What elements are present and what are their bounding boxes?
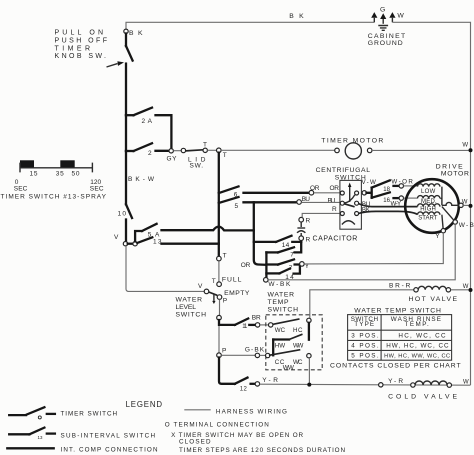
svg-text:2: 2 xyxy=(148,150,152,157)
svg-text:P: P xyxy=(222,348,226,355)
label CABINET GROUND xyxy=(368,33,406,47)
svg-text:BK: BK xyxy=(129,30,143,37)
svg-text:G-BK: G-BK xyxy=(245,346,265,353)
centrifugal switch actuator arrow xyxy=(348,183,351,203)
water temp switch row 2 HW-WW xyxy=(273,334,303,349)
node lid switch terminal right T xyxy=(203,142,207,153)
wire main BK-W vertical to switch 10 xyxy=(125,151,127,204)
timer switch 12 xyxy=(235,378,255,393)
svg-text:WATER TEMP SWITCH: WATER TEMP SWITCH xyxy=(354,307,441,314)
wire 5A contact line with hop over main vertical xyxy=(162,227,254,231)
wire 14 second contact riser to node Y xyxy=(294,267,300,274)
svg-text:EMPTY: EMPTY xyxy=(224,290,250,297)
svg-text:SWITCH: SWITCH xyxy=(268,307,299,314)
svg-text:W: W xyxy=(462,199,468,205)
timer switch 10 xyxy=(118,204,133,218)
wire R from centrifugal switch to capacitor xyxy=(302,213,340,217)
svg-text:W: W xyxy=(463,284,469,290)
svg-text:TIMER SWITCH #13-SPRAY: TIMER SWITCH #13-SPRAY xyxy=(1,193,107,200)
timer switch 18 xyxy=(367,180,391,197)
svg-text:10: 10 xyxy=(118,211,127,218)
node GY terminal xyxy=(167,149,178,163)
svg-text:2A: 2A xyxy=(142,118,153,125)
node P G-BK terminal xyxy=(217,348,227,358)
node R capacitor top terminal xyxy=(299,217,311,224)
node V-W terminal xyxy=(362,179,377,195)
node W-BK terminal xyxy=(264,278,292,288)
svg-text:O TERMINAL CONNECTION: O TERMINAL CONNECTION xyxy=(165,422,269,429)
svg-text:11: 11 xyxy=(242,324,248,330)
svg-text:SW.: SW. xyxy=(190,163,204,170)
timer switch 7 second xyxy=(266,259,294,272)
label WATER LEVEL SWITCH xyxy=(176,297,207,319)
wire W-OR to LOW winding xyxy=(404,185,418,187)
svg-text:HC, WC, CC: HC, WC, CC xyxy=(398,332,446,339)
svg-text:T: T xyxy=(223,252,227,259)
svg-text:W-OR: W-OR xyxy=(391,179,413,186)
svg-text:Y: Y xyxy=(435,233,440,240)
node centrifugal pin R left bottom xyxy=(340,212,344,216)
svg-text:WATER: WATER xyxy=(176,297,203,304)
svg-text:OR: OR xyxy=(330,185,340,192)
svg-text:COLD VALVE: COLD VALVE xyxy=(388,394,457,401)
wire link into temp switch xyxy=(260,354,266,356)
svg-text:TIMER MOTOR: TIMER MOTOR xyxy=(321,137,383,144)
wire row 2 bar down to row 3 pole xyxy=(272,340,274,356)
node G cabinet ground xyxy=(380,7,386,24)
svg-text:WW: WW xyxy=(293,342,303,349)
svg-text:HOT VALVE: HOT VALVE xyxy=(409,296,458,303)
winding START xyxy=(418,212,440,221)
svg-text:3 POS.: 3 POS. xyxy=(351,332,379,339)
svg-text:BK: BK xyxy=(289,13,304,20)
switch: lid sw. blade xyxy=(186,150,203,151)
wire BU centrifugal to HIGH winding xyxy=(359,201,418,208)
svg-text:15: 15 xyxy=(30,171,38,178)
node lid switch terminal left xyxy=(181,148,185,152)
node G-BK terminal at temp switch xyxy=(255,353,259,357)
svg-text:PULL ON: PULL ON xyxy=(55,30,104,37)
wire main line down to switch 12 xyxy=(219,358,235,384)
timer switch 6 xyxy=(219,186,239,198)
svg-text:BR: BR xyxy=(252,315,261,322)
node T FULL contact xyxy=(212,277,242,287)
label LID SW. xyxy=(188,157,206,170)
node centrifugal pin BU left middle xyxy=(340,201,344,205)
svg-text:SWITCH: SWITCH xyxy=(176,312,207,319)
legend sub-interval switch symbol xyxy=(9,428,155,441)
wire 7 contact to R riser xyxy=(295,242,302,252)
capacitor xyxy=(297,222,305,236)
svg-text:Y-R: Y-R xyxy=(262,377,278,384)
drive motor outline xyxy=(405,163,469,232)
svg-text:P: P xyxy=(223,297,227,304)
water temp switch table xyxy=(348,315,452,361)
svg-text:T: T xyxy=(223,152,227,159)
svg-text:CENTRIFUGAL: CENTRIFUGAL xyxy=(316,167,371,174)
timer switch 13 spray timing chart bar 2 xyxy=(60,160,74,168)
svg-text:12: 12 xyxy=(240,387,248,393)
centrifugal switch internal blades xyxy=(344,195,355,207)
node BK terminal of timer knob switch xyxy=(124,29,128,33)
svg-text:G: G xyxy=(380,7,385,14)
wire P down to switch 11 tap xyxy=(219,299,221,315)
wire BK centrifugal to START winding xyxy=(359,206,418,214)
water level switch blade xyxy=(209,292,218,295)
node centrifugal pin right top xyxy=(355,191,359,195)
wire W-B from drive motor to node W-BK xyxy=(268,224,455,280)
water temp switch row 3 blade CC-WC xyxy=(269,350,303,372)
wire GY to lid switch xyxy=(173,150,181,152)
wire hot valve to right edge xyxy=(451,284,469,290)
wire switch 10 to node V xyxy=(125,220,127,242)
wire HC contact bar down xyxy=(308,323,310,340)
legend timer switch symbol xyxy=(9,407,117,419)
label PULL ON PUSH OFF TIMER KNOB SW. xyxy=(55,30,108,61)
timing chart baseline xyxy=(20,163,92,173)
svg-text:Y-R: Y-R xyxy=(388,378,403,385)
node switch 12 output terminal xyxy=(255,377,278,386)
junction dot drive motor W at right edge xyxy=(469,204,473,208)
svg-text:35: 35 xyxy=(56,171,64,178)
svg-text:GROUND: GROUND xyxy=(368,40,403,47)
wire BR into water temp switch xyxy=(260,324,269,326)
svg-text:WC: WC xyxy=(293,359,303,366)
timer switch 13 xyxy=(137,237,162,245)
wire bar A from switch 5 node down to OR node xyxy=(254,202,267,264)
svg-text:CLOSED: CLOSED xyxy=(179,439,211,446)
svg-text:V: V xyxy=(114,234,119,241)
centrifugal switch box xyxy=(316,167,371,229)
svg-text:HW, HC, WC, CC: HW, HC, WC, CC xyxy=(386,342,449,349)
svg-text:5 POS.: 5 POS. xyxy=(351,352,379,359)
wire G-BK to water temp switch xyxy=(221,346,264,355)
svg-text:INT. COMP CONNECTION: INT. COMP CONNECTION xyxy=(61,446,158,453)
wire START winding to node Y xyxy=(435,215,445,241)
svg-text:TYPE: TYPE xyxy=(354,321,374,328)
timing chart labels xyxy=(1,171,107,201)
node centrifugal pin OR left top xyxy=(340,191,344,195)
timer switch 16 xyxy=(372,192,391,204)
water temp switch dashed box xyxy=(266,291,322,369)
node P EMPTY contact xyxy=(217,290,250,304)
svg-text:W: W xyxy=(463,379,469,385)
node T junction xyxy=(217,148,227,159)
wire lid switch to node T xyxy=(207,149,216,151)
svg-text:W: W xyxy=(397,13,404,20)
node R capacitor bottom terminal xyxy=(299,236,311,243)
wire W from cabinet ground to right edge and down right side xyxy=(392,22,470,385)
timer switch 13 spray timing chart bar 1 xyxy=(20,160,34,168)
centrifugal switch governor arc xyxy=(342,221,355,225)
ground symbol cabinet ground xyxy=(378,26,388,31)
wire switch 5 contact to node BU xyxy=(244,201,297,203)
wire bar B pivot bus of motor switches xyxy=(265,252,267,277)
svg-text:SEC: SEC xyxy=(14,185,28,192)
svg-text:LEGEND: LEGEND xyxy=(126,400,163,409)
wire main line down to G-BK node xyxy=(218,326,220,353)
timer motor xyxy=(221,137,383,159)
wire main BK vertical to switch 2A xyxy=(125,64,127,116)
wire BU to centrifugal switch xyxy=(301,201,340,203)
pointer arrow to knob switch xyxy=(107,61,125,67)
sub-interval switch 5A xyxy=(135,224,160,242)
svg-text:TIMER: TIMER xyxy=(55,45,91,52)
wire 14 contact to R riser xyxy=(292,240,301,242)
wire BK top horizontal from timer knob terminal to cabinet ground xyxy=(126,22,374,29)
legend harness wiring symbol xyxy=(184,409,287,416)
node row 3 pole xyxy=(266,353,270,357)
wire T node to water level switch FULL xyxy=(218,261,220,282)
wire main T vertical line down through switches 6 and 5 xyxy=(218,153,220,256)
svg-text:HARNESS WIRING: HARNESS WIRING xyxy=(216,409,287,416)
svg-text:W: W xyxy=(462,143,468,149)
svg-text:CABINET: CABINET xyxy=(368,33,406,40)
svg-text:LEVEL: LEVEL xyxy=(176,304,197,311)
svg-text:W-BK: W-BK xyxy=(268,281,291,288)
timer switch 11 xyxy=(219,319,255,331)
node Y-R terminal before cold valve xyxy=(379,378,404,387)
svg-text:R: R xyxy=(306,217,311,224)
svg-text:WATER: WATER xyxy=(268,291,295,298)
wire BR-R from water temp switch HC to hot valve xyxy=(310,283,414,319)
node HC contact xyxy=(307,318,311,322)
svg-text:MOTOR: MOTOR xyxy=(441,170,469,177)
timer switch 14 second xyxy=(266,269,294,281)
node T terminal below 13 junction xyxy=(217,252,227,261)
svg-text:HC: HC xyxy=(293,327,303,334)
svg-text:V: V xyxy=(198,283,203,290)
water temp switch row 1 pole xyxy=(269,323,273,327)
junction dot hot valve W at right edge xyxy=(469,288,473,292)
node BU terminal to centrifugal switch xyxy=(297,196,336,205)
wire switch 6 contact to node OR xyxy=(244,192,310,194)
svg-text:W-B: W-B xyxy=(459,222,474,229)
winding LOW xyxy=(418,184,440,195)
svg-text:TIMER STEPS ARE 120 SECONDS DU: TIMER STEPS ARE 120 SECONDS DURATION xyxy=(179,447,345,454)
svg-text:TEMP.: TEMP. xyxy=(405,321,430,328)
wire motor common bus to node W xyxy=(440,187,468,208)
svg-text:TEMP: TEMP xyxy=(268,299,289,306)
winding HIGH xyxy=(418,204,440,213)
cabinet ground arrow W side xyxy=(389,12,404,22)
svg-text:LOW: LOW xyxy=(421,189,436,195)
wire timer motor to right edge xyxy=(372,143,469,151)
svg-text:CAPACITOR: CAPACITOR xyxy=(313,235,358,242)
junction dot timer motor W at right edge xyxy=(469,148,473,152)
legend timer switch may be open or closed xyxy=(171,432,303,445)
svg-text:PUSH OFF: PUSH OFF xyxy=(55,37,108,44)
cabinet ground arrow BK side xyxy=(371,12,377,22)
svg-text:BK: BK xyxy=(362,206,371,213)
timer switch 7 first xyxy=(266,247,294,258)
svg-text:SUB-INTERVAL SWITCH: SUB-INTERVAL SWITCH xyxy=(61,433,156,440)
wire row 3 contact down to cold valve line xyxy=(308,358,310,385)
svg-text:FULL: FULL xyxy=(222,277,242,284)
wire Y-R cold valve line xyxy=(260,384,471,385)
hot valve solenoid xyxy=(409,286,458,303)
wire W-Y to MED winding xyxy=(404,197,418,199)
node V terminal pair xyxy=(114,234,137,246)
timer switch 14 first xyxy=(254,236,292,249)
wire Y from drive motor to switch stack xyxy=(304,233,443,264)
svg-text:SEC: SEC xyxy=(90,185,104,192)
svg-text:50: 50 xyxy=(72,171,80,178)
svg-text:HW, HC, WW, WC, CC: HW, HC, WW, WC, CC xyxy=(384,353,450,359)
node W-Y terminal xyxy=(391,196,404,207)
winding MED xyxy=(418,196,440,205)
svg-text:KNOB SW.: KNOB SW. xyxy=(55,53,107,60)
wire OR to centrifugal switch xyxy=(314,192,341,194)
svg-text:OR: OR xyxy=(241,262,251,269)
svg-text:V-W: V-W xyxy=(362,179,377,186)
svg-text:START: START xyxy=(418,215,438,221)
svg-text:OR: OR xyxy=(310,185,320,192)
wire 7 second contact to node Y xyxy=(295,263,300,265)
switch: pull on push off timer knob sw. xyxy=(126,34,133,61)
svg-text:GY: GY xyxy=(167,156,178,163)
node V water level switch pole xyxy=(198,283,209,294)
wire HIGH winding to node W-B xyxy=(442,207,474,229)
svg-text:WC: WC xyxy=(275,327,286,334)
svg-text:T: T xyxy=(203,142,207,149)
svg-text:BK-W: BK-W xyxy=(128,176,155,183)
water level switch adjustment arrow xyxy=(212,294,215,304)
cold valve solenoid xyxy=(388,379,469,400)
node BR terminal xyxy=(252,315,261,327)
svg-text:5: 5 xyxy=(235,203,239,210)
timer switch 2A xyxy=(126,108,171,149)
svg-text:R: R xyxy=(332,206,337,213)
svg-text:WW: WW xyxy=(283,365,294,372)
node centrifugal pin right bottom xyxy=(355,212,359,216)
timer switch 5 xyxy=(219,197,239,210)
svg-text:BU: BU xyxy=(328,197,336,204)
svg-text:CONTACTS CLOSED PER CHART: CONTACTS CLOSED PER CHART xyxy=(330,363,461,370)
node row 3 WC contact xyxy=(307,354,311,358)
svg-text:TIMER SWITCH: TIMER SWITCH xyxy=(61,411,118,418)
svg-text:T: T xyxy=(212,278,216,285)
svg-text:BR-R: BR-R xyxy=(389,283,411,290)
svg-text:HW: HW xyxy=(275,342,285,349)
junction dot Y-R and temp switch riser xyxy=(307,383,311,387)
node OR terminal to centrifugal switch xyxy=(309,185,339,195)
wire V from node V to water level switch xyxy=(126,246,204,292)
legend int comp connection symbol xyxy=(7,446,158,453)
node Y terminal of switch stack xyxy=(300,262,310,270)
node centrifugal pin right middle xyxy=(355,201,359,205)
svg-text:13: 13 xyxy=(38,435,43,440)
timer switch 2 xyxy=(126,115,169,157)
svg-text:R: R xyxy=(306,236,311,243)
node W-OR terminal xyxy=(391,179,413,188)
svg-text:4 POS.: 4 POS. xyxy=(351,342,379,349)
node switch 11 tap terminal xyxy=(217,315,222,320)
wire 13 contact line to main junction xyxy=(162,243,219,245)
water temp switch row 1 blade WC-HC xyxy=(273,319,303,334)
